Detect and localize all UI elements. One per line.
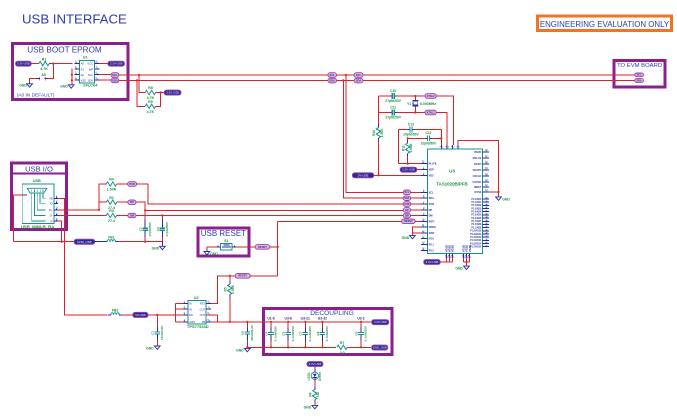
- capacitor C11: [385, 105, 401, 119]
- net flag DM: [128, 213, 136, 217]
- wire R9 tap: [137, 80, 145, 106]
- wire C8 bottom: [321, 341, 323, 347]
- svg-text:IN: IN: [189, 302, 192, 306]
- wire SCL drop to U3: [346, 75, 403, 192]
- ground: [146, 346, 160, 350]
- svg-text:R6: R6: [309, 392, 313, 396]
- wire C8 top: [321, 322, 323, 328]
- wire C3 tap: [161, 216, 163, 220]
- svg-text:MCLK2: MCLK2: [473, 157, 482, 160]
- wire R5 top link: [206, 276, 235, 304]
- wire C4 top: [270, 322, 272, 328]
- net flag PUR: [128, 182, 137, 187]
- svg-text:DP: DP: [429, 209, 433, 212]
- power label 3.3V-USB: [424, 260, 440, 265]
- wire RESET vertical: [277, 221, 279, 275]
- svg-text:DP: DP: [130, 200, 134, 204]
- svg-text:SDA: SDA: [429, 197, 434, 200]
- capacitor C6: [241, 324, 254, 340]
- capacitor C3: [156, 221, 169, 237]
- svg-text:U2: U2: [194, 296, 199, 300]
- wire R11 bottom: [407, 156, 409, 164]
- wire flag SDA to pin: [411, 197, 422, 199]
- power label 3.3V-USB: [307, 362, 323, 367]
- power label 5V-USB: [352, 173, 373, 178]
- svg-text:P1.0/AD8: P1.0/AD8: [471, 223, 482, 226]
- svg-text:GND: GND: [152, 246, 160, 250]
- resistor R4: [106, 178, 116, 192]
- svg-text:FB1: FB1: [108, 236, 115, 240]
- wire pur branch: [99, 184, 106, 210]
- wire xtal1 to U3: [436, 113, 447, 146]
- svg-text:0.1ufd/25V: 0.1ufd/25V: [291, 325, 295, 341]
- svg-text:P1.6/AD6: P1.6/AD6: [471, 217, 482, 220]
- svg-text:FB: FB: [202, 320, 206, 324]
- wire R5 bottom: [229, 298, 231, 322]
- capacitor C4: [264, 325, 277, 341]
- USB I/O box: [12, 163, 67, 230]
- svg-text:USB I/O: USB I/O: [25, 165, 53, 174]
- U3 right pins upper: [473, 149, 489, 194]
- wire U1 pin6 to SCL flag: [99, 74, 111, 76]
- power label 3.3V-USB: [400, 167, 417, 172]
- wire R11 top: [407, 138, 409, 140]
- svg-text:10ufd/16V: 10ufd/16V: [160, 325, 164, 341]
- resistor R6: [309, 389, 321, 399]
- svg-text:P1.0/AD0: P1.0/AD0: [471, 198, 482, 201]
- svg-text:0.1ufd/25V: 0.1ufd/25V: [274, 325, 278, 341]
- wire U1 ground pins: [71, 69, 74, 84]
- svg-text:RESET: RESET: [404, 219, 413, 223]
- svg-text:DECOUPLING: DECOUPLING: [310, 310, 354, 317]
- svg-text:3.3V-USB: 3.3V-USB: [166, 91, 179, 95]
- wire C11 left: [378, 112, 390, 114]
- svg-text:SCL: SCL: [330, 73, 336, 77]
- resistor R2: [106, 196, 116, 210]
- svg-text:R2: R2: [109, 196, 114, 200]
- wire LED to R6: [314, 380, 316, 387]
- wire C13 right: [415, 129, 442, 131]
- capacitor C2: [139, 221, 152, 237]
- svg-text:OUT: OUT: [200, 313, 206, 317]
- resistor R3: [106, 209, 116, 223]
- power label 5V-USB: [133, 312, 148, 317]
- svg-text:P1.7/AD15: P1.7/AD15: [470, 246, 482, 249]
- svg-text:MRST: MRST: [474, 186, 482, 189]
- resistor R7: [337, 341, 347, 355]
- svg-text:USB RESET: USB RESET: [201, 229, 246, 238]
- wire GND rail right: [347, 346, 371, 348]
- DECOUPLING box: [264, 308, 393, 354]
- eeprom U1: [79, 56, 98, 88]
- wire SCL bus: [119, 74, 635, 76]
- wire U3 bottom group1: [440, 258, 452, 262]
- wire U3 top gnd: [458, 141, 499, 192]
- power label 3.3V-USB: [108, 61, 124, 66]
- svg-text:G: G: [51, 219, 53, 223]
- wire C9 top: [360, 322, 362, 328]
- svg-text:U1: U1: [83, 56, 88, 60]
- svg-text:USB: USB: [33, 179, 41, 183]
- svg-text:SCL: SCL: [112, 73, 118, 77]
- wire gnd stub right: [498, 192, 500, 197]
- wire C12 left: [408, 137, 426, 139]
- svg-text:USB BOOT EPROM: USB BOOT EPROM: [27, 46, 102, 55]
- wire usb D- out: [58, 215, 106, 217]
- wire flag DP to pin: [411, 209, 422, 211]
- svg-text:C11: C11: [390, 105, 396, 109]
- svg-text:Green: Green: [318, 372, 322, 381]
- wire U2 out elbow: [206, 315, 218, 322]
- svg-text:USB INTERFACE: USB INTERFACE: [22, 12, 127, 27]
- net flag SDA: [635, 79, 644, 83]
- svg-text:U3-2: U3-2: [357, 316, 364, 320]
- svg-text:C13: C13: [408, 122, 414, 126]
- svg-text:XTAL2: XTAL2: [427, 94, 436, 98]
- svg-text:PUR: PUR: [404, 203, 409, 206]
- U3 left pins: [421, 161, 437, 253]
- svg-text:GND_USB: GND_USB: [77, 240, 92, 244]
- svg-text:R3: R3: [109, 209, 114, 213]
- wire C11 right: [397, 112, 425, 114]
- svg-text:DM: DM: [405, 214, 409, 217]
- svg-text:SCL: SCL: [356, 73, 362, 77]
- power label 3.3V-USB: [372, 320, 389, 325]
- wire 3.3V rail: [218, 321, 371, 323]
- svg-text:SDA: SDA: [329, 79, 335, 83]
- svg-text:SDA: SDA: [88, 78, 94, 82]
- svg-text:DP: DP: [405, 209, 409, 212]
- wire S1 to gnd: [207, 247, 216, 251]
- svg-text:24LC64: 24LC64: [83, 83, 98, 88]
- svg-text:IN: IN: [189, 307, 192, 311]
- wire flag to vert: [270, 246, 278, 248]
- wire 3.3V label to pin2: [417, 169, 421, 171]
- svg-text:P1.5/AD13: P1.5/AD13: [470, 239, 482, 242]
- wire U3 left gnd elbow: [412, 227, 421, 233]
- svg-text:VB: VB: [49, 196, 53, 200]
- wire usb gnd drop: [58, 221, 62, 242]
- svg-text:ENGINEERING EVALUATION ONLY: ENGINEERING EVALUATION ONLY: [540, 20, 670, 29]
- svg-text:1.50K: 1.50K: [380, 128, 384, 137]
- svg-text:6.000MHz: 6.000MHz: [420, 102, 436, 106]
- svg-text:1.00M: 1.00M: [409, 143, 413, 152]
- wire C13 left: [398, 129, 407, 131]
- svg-text:P1.1/AD1: P1.1/AD1: [471, 201, 482, 204]
- svg-text:RSTI: RSTI: [429, 220, 435, 223]
- svg-text:C10: C10: [390, 89, 396, 93]
- USB BOOT EPROM box: [13, 44, 129, 100]
- svg-text:3.3V-USB: 3.3V-USB: [374, 320, 387, 324]
- capacitor C13: [403, 122, 419, 136]
- svg-text:TO EVM BOARD: TO EVM BOARD: [617, 63, 662, 69]
- svg-text:GND: GND: [189, 320, 195, 324]
- resistor R10: [372, 128, 384, 138]
- jumper A0: [37, 73, 48, 80]
- U1 pins: [74, 60, 99, 83]
- ground: [236, 348, 250, 352]
- wire A0 node: [48, 64, 54, 79]
- svg-text:3.3V-USB: 3.3V-USB: [402, 168, 415, 172]
- capacitor C8: [316, 325, 329, 341]
- net flag RESET: [402, 219, 416, 224]
- svg-text:GND: GND: [19, 84, 27, 88]
- svg-text:0.0: 0.0: [340, 351, 345, 355]
- wire flag SCL to pin: [411, 191, 422, 193]
- svg-text:PUR: PUR: [129, 182, 135, 186]
- wire r2 right: [117, 201, 128, 203]
- svg-text:U3: U3: [449, 169, 455, 174]
- wire C1 tap: [156, 315, 158, 327]
- U3 top pins: [440, 145, 461, 149]
- power label 3.3V-USB: [16, 61, 32, 66]
- svg-text:P1.1/AD9: P1.1/AD9: [471, 226, 482, 229]
- svg-text:R5: R5: [224, 287, 228, 291]
- wire C10 left: [378, 95, 390, 97]
- ground: [19, 84, 32, 88]
- wire flag RESET to pin: [415, 220, 421, 222]
- svg-text:P1.6/AD14: P1.6/AD14: [470, 242, 482, 245]
- net flag DM: [403, 213, 410, 218]
- wire U2 input vert: [176, 303, 183, 321]
- svg-text:4.7K: 4.7K: [147, 110, 155, 114]
- net flag SCL: [403, 190, 410, 195]
- svg-text:3.3V-USB: 3.3V-USB: [426, 260, 439, 264]
- wire DM long: [136, 215, 403, 217]
- wire GND rail: [247, 346, 336, 348]
- wire U1 pin8 to label: [99, 63, 108, 65]
- net flag SDA: [111, 78, 119, 83]
- svg-text:U3-32: U3-32: [318, 316, 327, 320]
- svg-text:RSVD: RSVD: [474, 151, 481, 154]
- svg-text:0.1ufd/25V: 0.1ufd/25V: [364, 325, 368, 341]
- wire r2 left: [99, 201, 106, 203]
- svg-text:P1.5/AD5: P1.5/AD5: [471, 214, 482, 217]
- svg-text:P3.1: P3.1: [429, 244, 435, 247]
- wire R10 bottom: [377, 140, 379, 175]
- wire 5V to U2: [148, 314, 183, 316]
- svg-text:VREN: VREN: [429, 226, 436, 229]
- svg-text:A0: A0: [41, 73, 46, 77]
- svg-text:P3.2: P3.2: [429, 249, 435, 252]
- wire R9 up to R8 node: [156, 93, 161, 107]
- net flag PUR: [403, 202, 410, 207]
- wire R8 tap: [139, 75, 145, 93]
- net flag SCL: [635, 73, 644, 77]
- net flag DP: [128, 200, 136, 204]
- svg-text:332: 332: [316, 392, 320, 398]
- wire C3 bottom: [161, 237, 163, 242]
- wire C1 bottom: [156, 340, 158, 346]
- wire C5 bottom: [287, 341, 289, 347]
- svg-text:FB2: FB2: [112, 309, 119, 313]
- wire C6 tap: [246, 322, 248, 328]
- svg-text:10pfd/50V: 10pfd/50V: [403, 133, 419, 137]
- wire C4 bottom: [270, 341, 272, 347]
- capacitor C9: [354, 325, 367, 341]
- svg-text:P1.4/AD12: P1.4/AD12: [470, 236, 482, 239]
- resistor R1: [39, 57, 49, 71]
- svg-text:GND: GND: [402, 236, 410, 240]
- TO EVM BOARD box: [614, 60, 665, 87]
- svg-text:P1.2/AD10: P1.2/AD10: [470, 230, 482, 233]
- svg-text:5V-USB: 5V-USB: [135, 313, 145, 317]
- wire C9 bottom: [360, 341, 362, 347]
- wire C6 bottom: [246, 340, 248, 347]
- svg-text:VS3D: VS3D: [468, 245, 472, 252]
- svg-text:A0: A0: [81, 62, 85, 66]
- wire SDA drop to U3: [343, 80, 403, 198]
- svg-text:68ufd/6.3V: 68ufd/6.3V: [250, 324, 254, 340]
- svg-text:CDATO: CDATO: [473, 169, 482, 172]
- svg-text:5V-USB: 5V-USB: [358, 173, 369, 177]
- wire vbus drop: [58, 198, 107, 315]
- net flag XTAL2: [425, 94, 436, 99]
- svg-text:P3.0: P3.0: [429, 238, 435, 241]
- wire R8 to label: [156, 92, 165, 94]
- svg-text:A1: A1: [81, 67, 85, 71]
- wire PUR long: [137, 184, 404, 204]
- svg-text:GND: GND: [304, 406, 312, 410]
- wire A0 to GND: [30, 79, 37, 83]
- wire C10 right: [397, 95, 415, 97]
- switch S1: [216, 239, 236, 250]
- crystal Y1: [407, 96, 436, 113]
- svg-text:ID: ID: [50, 201, 53, 205]
- svg-text:GND_USB: GND_USB: [373, 346, 387, 350]
- svg-text:R10: R10: [372, 130, 376, 136]
- wire label to R1: [31, 63, 39, 65]
- wire flag DM to pin: [411, 215, 422, 217]
- ground: [60, 85, 74, 89]
- net flag RESET: [235, 273, 250, 278]
- resistor R11: [402, 143, 414, 153]
- capacitor C10: [385, 89, 401, 103]
- svg-text:C7: C7: [299, 331, 303, 335]
- wire R1 to U1 pin1: [49, 63, 72, 65]
- svg-text:GND: GND: [210, 252, 218, 256]
- wire FB2 to label: [123, 314, 133, 316]
- wire shield to gnd rail: [14, 195, 23, 242]
- svg-text:27.4: 27.4: [108, 219, 115, 223]
- svg-text:SCL: SCL: [405, 191, 410, 194]
- svg-text:A2: A2: [81, 73, 85, 77]
- net flag XTAL1: [425, 110, 436, 115]
- svg-text:S1: S1: [224, 239, 228, 243]
- svg-text:Y1: Y1: [407, 102, 411, 106]
- ground: [455, 266, 469, 270]
- svg-text:SDA: SDA: [356, 79, 362, 83]
- wire C13/C12 right vert: [440, 130, 442, 146]
- ground: [204, 252, 218, 257]
- svg-text:USB_MINI-B_RA: USB_MINI-B_RA: [21, 225, 55, 230]
- svg-text:D-: D-: [50, 214, 53, 218]
- resistor R5: [224, 284, 236, 294]
- svg-text:LED1: LED1: [307, 372, 311, 380]
- wire C5 top: [287, 322, 289, 328]
- wire R6 to gnd: [314, 402, 316, 405]
- wire SDA bus: [119, 79, 635, 81]
- svg-text:3.3V-USB: 3.3V-USB: [309, 362, 322, 366]
- svg-text:GND: GND: [455, 266, 463, 270]
- engineering evaluation box: [538, 16, 672, 30]
- svg-text:C9: C9: [354, 331, 358, 335]
- wire label to LED: [314, 366, 316, 369]
- svg-text:P1.3/AD3: P1.3/AD3: [471, 207, 482, 210]
- wire gnd rail: [14, 241, 75, 243]
- svg-text:GND: GND: [146, 346, 154, 350]
- svg-text:C4: C4: [264, 331, 268, 335]
- svg-text:D+: D+: [49, 208, 53, 212]
- microcontroller U3: [428, 149, 483, 254]
- svg-text:4.7K: 4.7K: [40, 67, 48, 71]
- wire R5 top: [229, 276, 231, 281]
- wire S1 to flag: [236, 246, 255, 248]
- svg-text:PUR: PUR: [429, 203, 434, 206]
- wire C7 bottom: [304, 341, 306, 347]
- net flag SDA: [403, 196, 410, 201]
- svg-text:R8: R8: [148, 86, 153, 90]
- ground: [304, 405, 318, 409]
- usb connector internal wires: [23, 193, 58, 223]
- wire gnd stub: [411, 233, 413, 236]
- svg-text:CDATI: CDATI: [474, 163, 482, 166]
- net flag DP: [403, 208, 410, 213]
- svg-text:C2: C2: [139, 227, 143, 231]
- svg-text:P1.7/AD7: P1.7/AD7: [471, 220, 482, 223]
- U3 right pins port block: [470, 198, 489, 249]
- svg-text:CSCLK: CSCLK: [473, 175, 482, 178]
- svg-text:VD5: VD5: [429, 174, 434, 177]
- regulator U2: [187, 296, 209, 329]
- wire C2 bottom: [144, 237, 146, 242]
- LED LED1: [307, 369, 322, 381]
- svg-text:R4: R4: [109, 178, 114, 182]
- ferrite bead FB1: [107, 236, 115, 242]
- svg-text:XTAL1: XTAL1: [427, 110, 436, 114]
- svg-text:0.1ufd/25V: 0.1ufd/25V: [308, 325, 312, 341]
- svg-text:RST: RST: [200, 302, 206, 306]
- svg-text:DVSS: DVSS: [474, 191, 481, 194]
- ground: [152, 246, 166, 250]
- wire xtal2 to U3: [436, 96, 453, 145]
- svg-text:27pfd/50V: 27pfd/50V: [385, 116, 401, 120]
- wire U3 pin1 row: [398, 163, 421, 165]
- power label GND_USB: [74, 239, 94, 244]
- svg-text:VDP: VDP: [429, 169, 434, 172]
- svg-text:C5: C5: [282, 331, 286, 335]
- svg-text:XINT: XINT: [429, 232, 435, 235]
- net flag SDA: [354, 78, 363, 83]
- net flag SCL: [328, 73, 337, 78]
- svg-text:CSYNC: CSYNC: [473, 181, 482, 184]
- power label GND_USB: [372, 345, 388, 350]
- svg-text:C8: C8: [316, 331, 320, 335]
- wire RESET long to U3: [278, 220, 402, 222]
- svg-text:SDA: SDA: [636, 79, 641, 82]
- svg-text:SCL: SCL: [429, 191, 434, 194]
- wire C7 top: [304, 322, 306, 328]
- resistor R8: [145, 86, 155, 100]
- svg-text:RESET: RESET: [258, 245, 267, 249]
- svg-text:C1: C1: [151, 331, 155, 335]
- wire xtal2 row: [415, 95, 425, 97]
- wire r4 right: [117, 183, 128, 185]
- svg-text:U3-21: U3-21: [301, 316, 310, 320]
- svg-text:TPS77533D: TPS77533D: [187, 324, 209, 329]
- svg-text:R11: R11: [402, 145, 406, 151]
- U2 pins: [183, 299, 211, 324]
